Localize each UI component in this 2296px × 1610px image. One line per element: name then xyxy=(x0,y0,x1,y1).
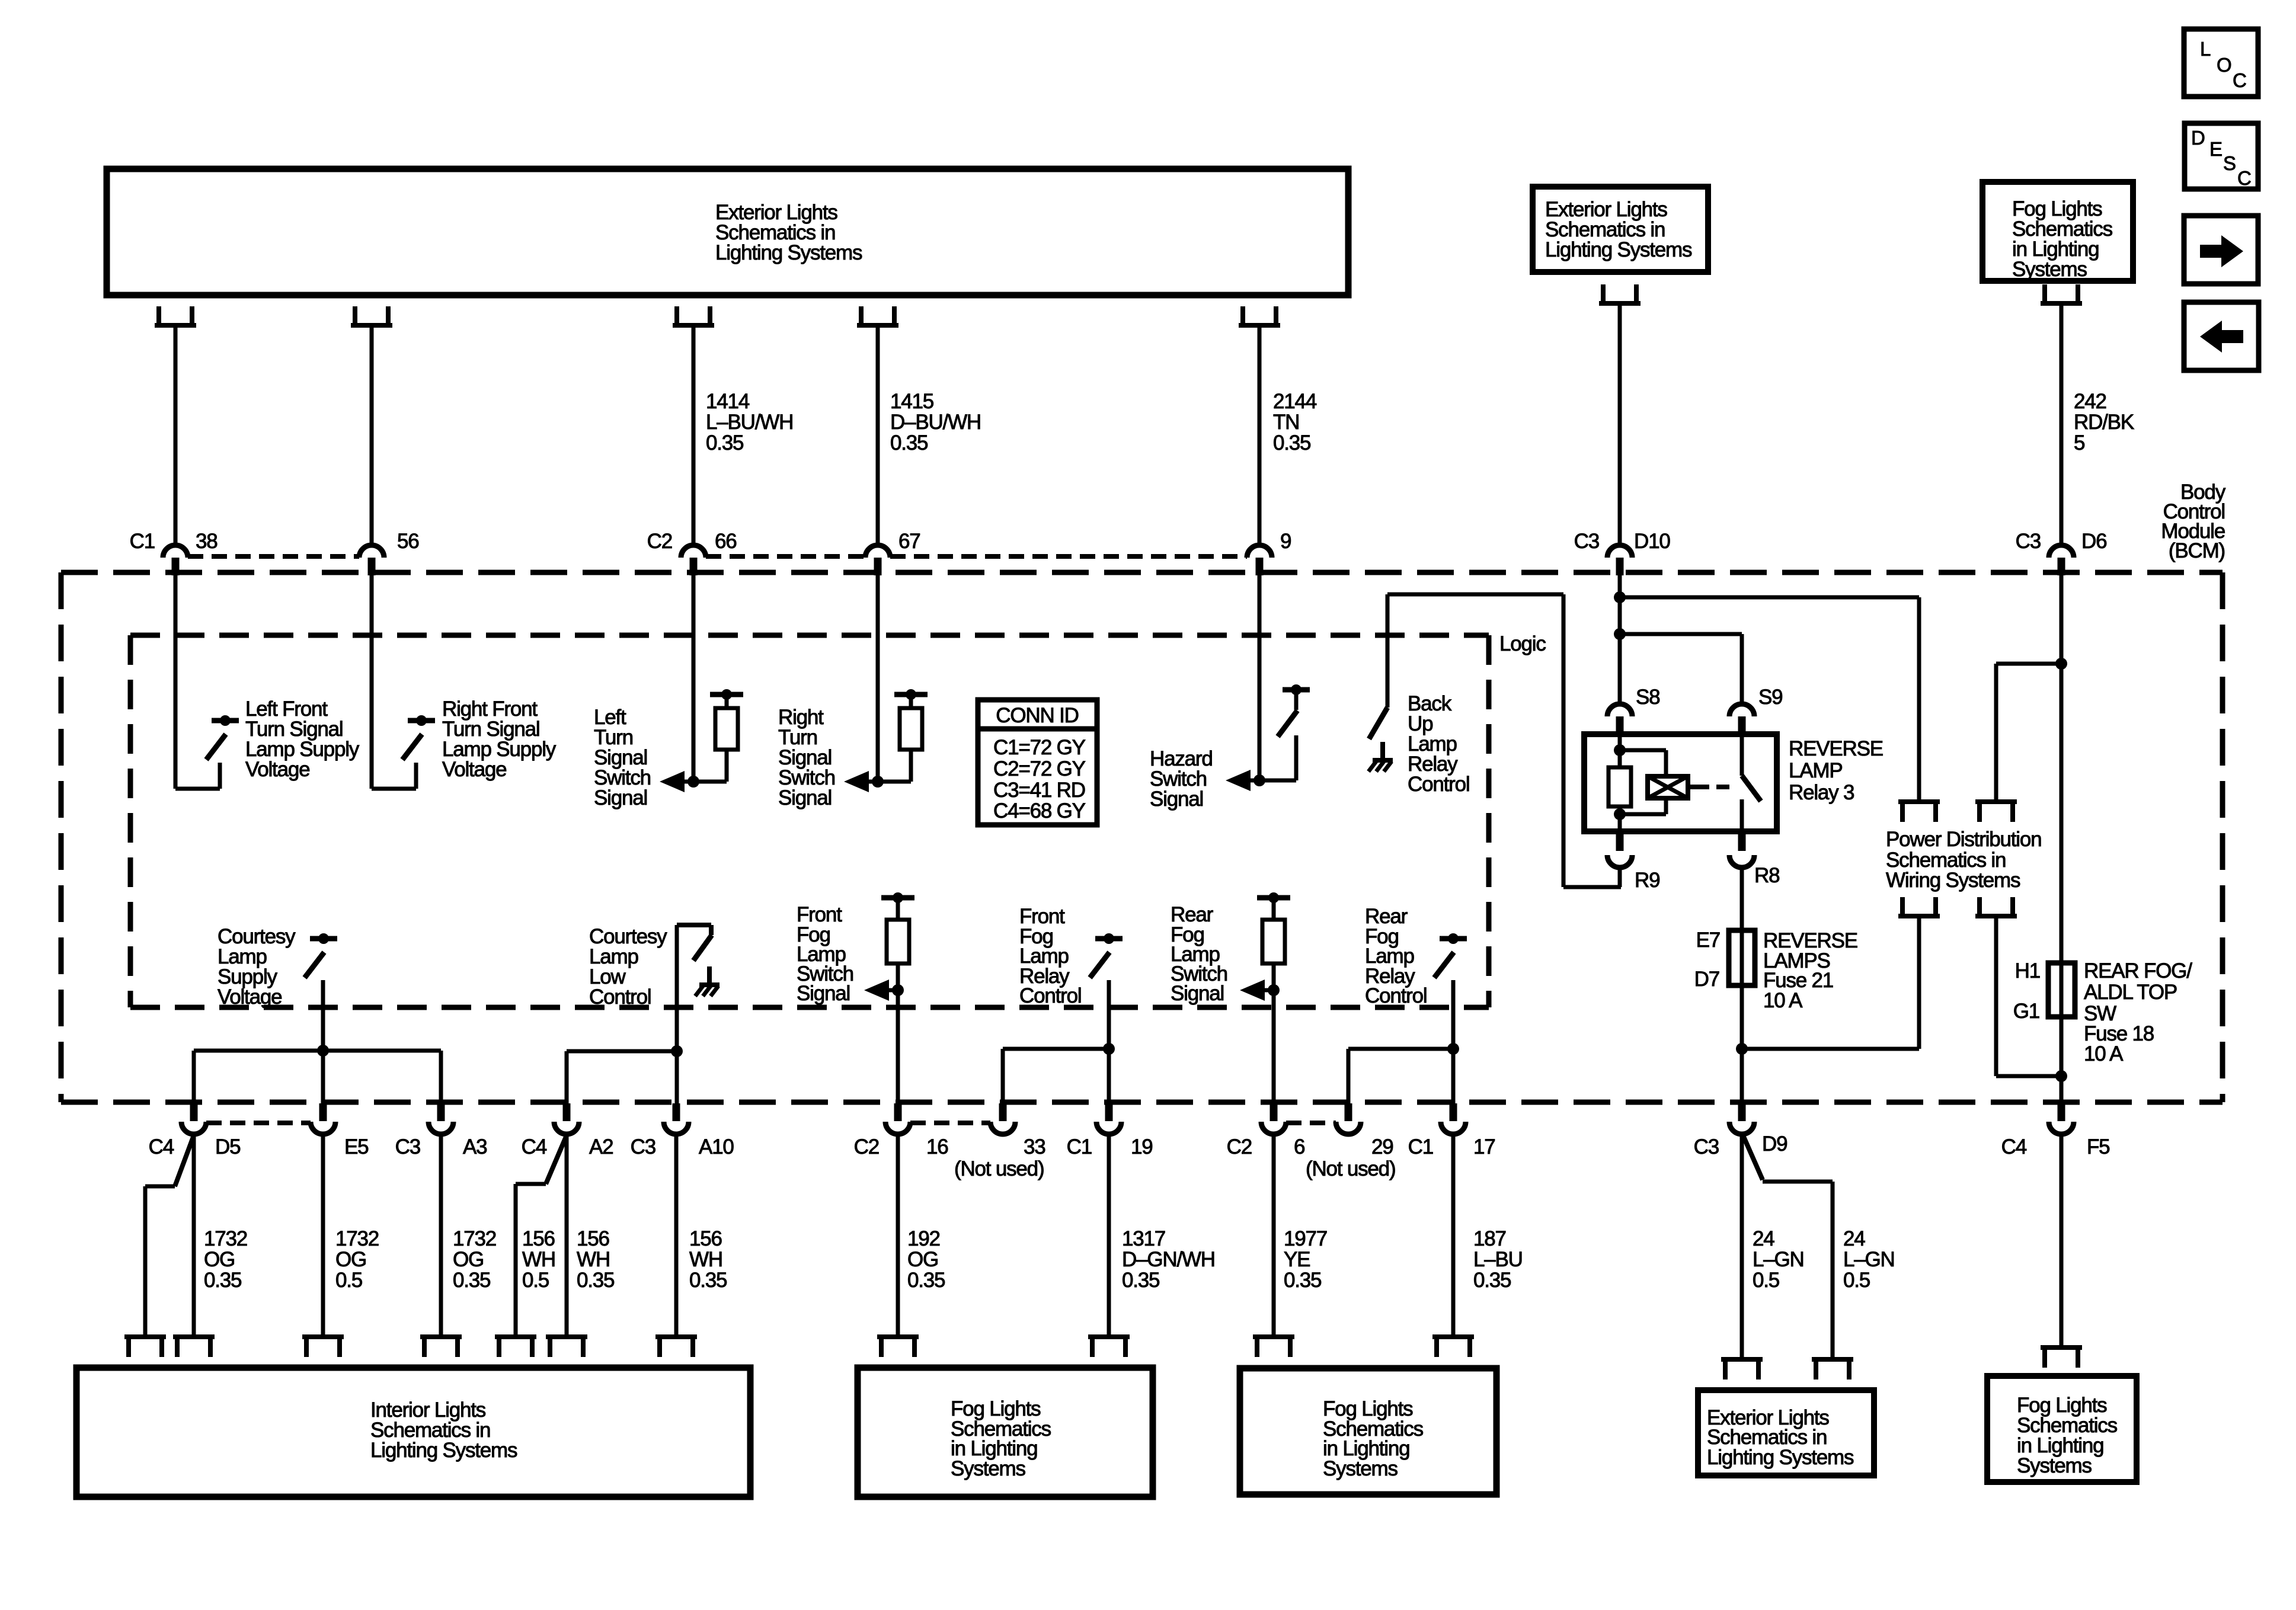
svg-text:E: E xyxy=(2209,138,2222,160)
svg-text:D–GN/WH: D–GN/WH xyxy=(1122,1248,1215,1271)
svg-text:Signal: Signal xyxy=(1171,982,1224,1005)
svg-text:A3: A3 xyxy=(463,1135,487,1158)
svg-text:CONN ID: CONN ID xyxy=(996,704,1078,727)
svg-text:Lighting Systems: Lighting Systems xyxy=(370,1439,517,1462)
svg-text:C3: C3 xyxy=(395,1135,420,1158)
svg-text:C: C xyxy=(2233,69,2246,91)
svg-text:0.35: 0.35 xyxy=(706,431,743,454)
svg-text:E5: E5 xyxy=(344,1135,368,1158)
svg-text:L–BU/WH: L–BU/WH xyxy=(706,411,793,434)
svg-text:C4=68 GY: C4=68 GY xyxy=(993,799,1086,822)
svg-text:S8: S8 xyxy=(1636,686,1659,709)
svg-text:YE: YE xyxy=(1284,1248,1310,1271)
svg-text:29: 29 xyxy=(1371,1135,1393,1158)
svg-text:10 A: 10 A xyxy=(1763,989,1803,1012)
svg-text:H1: H1 xyxy=(2015,959,2040,982)
svg-text:REVERSE: REVERSE xyxy=(1789,737,1883,760)
svg-text:Control: Control xyxy=(589,985,651,1009)
svg-text:OG: OG xyxy=(453,1248,484,1271)
svg-text:L: L xyxy=(2200,38,2211,60)
svg-text:0.35: 0.35 xyxy=(890,431,928,454)
svg-text:242: 242 xyxy=(2074,390,2106,413)
svg-text:D9: D9 xyxy=(1762,1132,1787,1156)
svg-text:38: 38 xyxy=(196,530,218,553)
svg-text:Systems: Systems xyxy=(951,1457,1025,1480)
svg-text:C1: C1 xyxy=(130,530,155,553)
svg-text:ALDL TOP: ALDL TOP xyxy=(2084,981,2177,1004)
svg-text:REAR FOG/: REAR FOG/ xyxy=(2084,959,2192,982)
svg-text:156: 156 xyxy=(577,1227,609,1250)
svg-text:C4: C4 xyxy=(149,1135,174,1158)
svg-text:Systems: Systems xyxy=(1323,1457,1398,1480)
svg-text:Systems: Systems xyxy=(2012,258,2087,281)
svg-text:C1: C1 xyxy=(1408,1135,1433,1158)
svg-text:0.35: 0.35 xyxy=(577,1269,614,1292)
svg-text:0.35: 0.35 xyxy=(204,1269,241,1292)
svg-text:C2: C2 xyxy=(647,530,672,553)
svg-text:R9: R9 xyxy=(1635,869,1659,892)
svg-text:C3=41 RD: C3=41 RD xyxy=(993,779,1085,802)
svg-text:A10: A10 xyxy=(699,1135,734,1158)
svg-text:0.5: 0.5 xyxy=(335,1269,362,1292)
svg-text:RD/BK: RD/BK xyxy=(2074,411,2134,434)
svg-text:156: 156 xyxy=(522,1227,555,1250)
svg-text:Wiring Systems: Wiring Systems xyxy=(1886,869,2020,892)
svg-text:0.5: 0.5 xyxy=(1753,1269,1779,1292)
svg-text:16: 16 xyxy=(926,1135,948,1158)
svg-text:187: 187 xyxy=(1473,1227,1506,1250)
svg-text:WH: WH xyxy=(577,1248,610,1271)
svg-text:OG: OG xyxy=(907,1248,938,1271)
svg-text:33: 33 xyxy=(1024,1135,1045,1158)
svg-text:(BCM): (BCM) xyxy=(2169,539,2225,562)
svg-text:C3: C3 xyxy=(1574,530,1599,553)
svg-text:D: D xyxy=(2191,127,2205,149)
svg-text:0.35: 0.35 xyxy=(1473,1269,1511,1292)
svg-text:0.35: 0.35 xyxy=(1122,1269,1159,1292)
svg-text:66: 66 xyxy=(715,530,737,553)
svg-text:Control: Control xyxy=(1365,984,1427,1007)
svg-text:S: S xyxy=(2223,152,2236,174)
svg-text:67: 67 xyxy=(898,530,920,553)
svg-text:C4: C4 xyxy=(2001,1135,2027,1158)
svg-text:1732: 1732 xyxy=(453,1227,496,1250)
svg-text:0.35: 0.35 xyxy=(689,1269,727,1292)
svg-text:E7: E7 xyxy=(1696,929,1720,952)
svg-text:Relay 3: Relay 3 xyxy=(1789,781,1854,804)
svg-text:56: 56 xyxy=(397,530,419,553)
svg-text:C1=72 GY: C1=72 GY xyxy=(993,736,1086,759)
svg-text:D5: D5 xyxy=(215,1135,240,1158)
svg-text:Voltage: Voltage xyxy=(245,758,309,781)
svg-text:156: 156 xyxy=(689,1227,722,1250)
svg-text:Systems: Systems xyxy=(2017,1454,2092,1477)
svg-text:1317: 1317 xyxy=(1122,1227,1165,1250)
svg-text:1732: 1732 xyxy=(335,1227,379,1250)
svg-text:Signal: Signal xyxy=(1150,788,1203,811)
svg-text:D6: D6 xyxy=(2081,530,2106,553)
svg-text:Voltage: Voltage xyxy=(442,758,506,781)
svg-text:F5: F5 xyxy=(2087,1135,2109,1158)
svg-text:1415: 1415 xyxy=(890,390,933,413)
svg-text:O: O xyxy=(2217,54,2231,76)
svg-text:C1: C1 xyxy=(1067,1135,1092,1158)
svg-text:Lighting Systems: Lighting Systems xyxy=(715,241,862,264)
svg-text:L–GN: L–GN xyxy=(1753,1248,1804,1271)
svg-text:Logic: Logic xyxy=(1499,632,1546,655)
svg-text:Power Distribution: Power Distribution xyxy=(1886,828,2041,851)
svg-text:G1: G1 xyxy=(2013,1000,2039,1023)
svg-text:Control: Control xyxy=(1408,773,1469,796)
svg-text:10 A: 10 A xyxy=(2084,1042,2124,1065)
svg-text:6: 6 xyxy=(1294,1135,1304,1158)
svg-text:(Not used): (Not used) xyxy=(1306,1157,1395,1180)
svg-text:C3: C3 xyxy=(2016,530,2041,553)
svg-text:L–BU: L–BU xyxy=(1473,1248,1523,1271)
svg-text:9: 9 xyxy=(1280,530,1291,553)
svg-text:19: 19 xyxy=(1131,1135,1153,1158)
svg-text:192: 192 xyxy=(907,1227,940,1250)
svg-text:C4: C4 xyxy=(522,1135,547,1158)
svg-text:0.35: 0.35 xyxy=(907,1269,945,1292)
svg-text:0.35: 0.35 xyxy=(1273,431,1310,454)
svg-text:5: 5 xyxy=(2074,431,2084,454)
svg-text:1732: 1732 xyxy=(204,1227,247,1250)
svg-text:C: C xyxy=(2237,167,2251,189)
svg-text:OG: OG xyxy=(204,1248,235,1271)
svg-text:WH: WH xyxy=(522,1248,555,1271)
svg-text:Signal: Signal xyxy=(594,786,647,809)
svg-text:D–BU/WH: D–BU/WH xyxy=(890,411,981,434)
svg-text:Lighting Systems: Lighting Systems xyxy=(1545,238,1692,261)
svg-text:A2: A2 xyxy=(589,1135,613,1158)
svg-text:1414: 1414 xyxy=(706,390,750,413)
svg-text:C2=72 GY: C2=72 GY xyxy=(993,757,1086,780)
svg-text:S9: S9 xyxy=(1758,686,1782,709)
svg-text:D7: D7 xyxy=(1694,968,1719,991)
svg-text:Lighting Systems: Lighting Systems xyxy=(1707,1446,1854,1469)
svg-text:0.5: 0.5 xyxy=(1843,1269,1870,1292)
svg-text:Control: Control xyxy=(1019,984,1081,1007)
svg-text:0.35: 0.35 xyxy=(453,1269,490,1292)
svg-text:C2: C2 xyxy=(854,1135,879,1158)
svg-text:(Not used): (Not used) xyxy=(954,1157,1044,1180)
svg-text:C3: C3 xyxy=(631,1135,655,1158)
svg-text:C3: C3 xyxy=(1694,1135,1719,1158)
svg-text:WH: WH xyxy=(689,1248,722,1271)
svg-text:R8: R8 xyxy=(1754,864,1779,887)
svg-text:L–GN: L–GN xyxy=(1843,1248,1895,1271)
svg-text:1977: 1977 xyxy=(1284,1227,1327,1250)
svg-text:OG: OG xyxy=(335,1248,366,1271)
svg-text:17: 17 xyxy=(1473,1135,1495,1158)
svg-text:Signal: Signal xyxy=(797,982,850,1005)
svg-text:TN: TN xyxy=(1273,411,1299,434)
svg-text:C2: C2 xyxy=(1227,1135,1252,1158)
svg-text:24: 24 xyxy=(1843,1227,1865,1250)
svg-text:24: 24 xyxy=(1753,1227,1774,1250)
svg-text:LAMP: LAMP xyxy=(1789,759,1843,782)
svg-text:D10: D10 xyxy=(1634,530,1670,553)
svg-text:Voltage: Voltage xyxy=(218,985,282,1009)
svg-text:2144: 2144 xyxy=(1273,390,1317,413)
svg-text:0.35: 0.35 xyxy=(1284,1269,1321,1292)
svg-text:Signal: Signal xyxy=(778,786,832,809)
svg-text:0.5: 0.5 xyxy=(522,1269,549,1292)
